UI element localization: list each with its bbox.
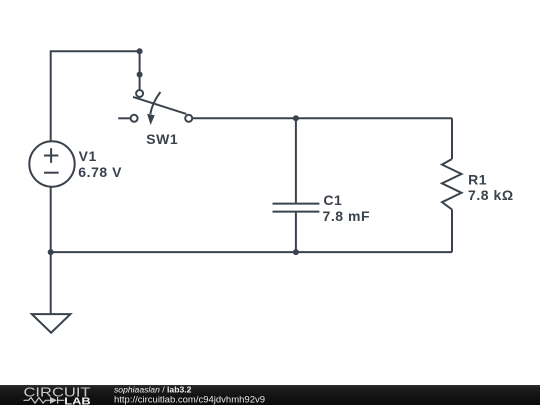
svg-text:7.8 mF: 7.8 mF: [323, 208, 371, 224]
node: cap top junction dot: [293, 115, 299, 121]
svg-text:sophiaaslan / lab3.2: sophiaaslan / lab3.2: [114, 385, 192, 395]
wire: unused throw stub: [118, 117, 130, 119]
resistor R1: [442, 159, 462, 210]
ground: [32, 314, 71, 333]
wire: capacitor top branch: [295, 118, 297, 202]
svg-text:6.78 V: 6.78 V: [78, 164, 122, 180]
wire: bottom rail: [51, 251, 452, 253]
svg-text:R1: R1: [468, 171, 487, 187]
wire: resistor bottom branch: [451, 210, 453, 253]
node: top junction dot: [137, 48, 143, 54]
wire: left rail top + top horizontal: [51, 51, 140, 141]
wire: ground stem: [50, 252, 52, 314]
svg-text:http://circuitlab.com/c94jdvhm: http://circuitlab.com/c94jdvhmh92v9: [114, 394, 265, 405]
svg-text:SW1: SW1: [146, 131, 178, 147]
node: switch pole junction dot: [137, 72, 143, 78]
svg-text:V1: V1: [79, 148, 97, 164]
pole terminal circle: [136, 90, 143, 97]
node: ground junction dot: [48, 249, 54, 255]
wire: switch pole drop: [139, 51, 141, 90]
footer logo resistor-diode symbol: [24, 398, 51, 404]
node: cap bottom junction dot: [293, 249, 299, 255]
voltage source V1: [29, 141, 74, 186]
wire: resistor top branch: [451, 118, 453, 159]
footer bar: [0, 385, 540, 405]
svg-text:LAB: LAB: [64, 396, 90, 405]
capacitor C1: [273, 204, 320, 212]
wire: switch output to right rail: [192, 117, 452, 119]
svg-text:7.8 kΩ: 7.8 kΩ: [468, 187, 514, 203]
blade: [133, 97, 186, 114]
svg-text:C1: C1: [323, 192, 342, 208]
arc arrowhead: [147, 114, 155, 125]
left throw terminal circle: [131, 115, 138, 122]
wire: capacitor bottom branch: [295, 213, 297, 253]
right throw terminal circle: [185, 115, 192, 122]
wire: V1 bottom to ground rail: [50, 187, 52, 252]
switch SW1: [131, 90, 193, 122]
actuation arc: [150, 92, 160, 114]
